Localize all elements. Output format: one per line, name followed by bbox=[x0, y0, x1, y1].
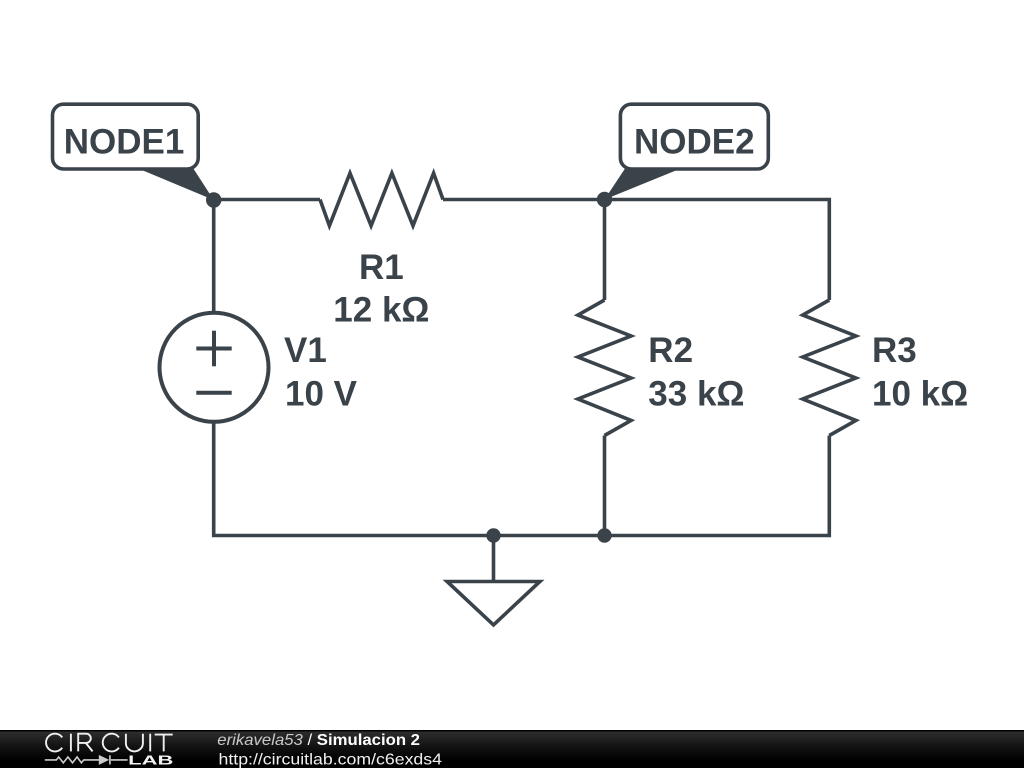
svg-text:NODE1: NODE1 bbox=[64, 123, 185, 162]
svg-text:http://circuitlab.com/c6exds4: http://circuitlab.com/c6exds4 bbox=[219, 752, 443, 768]
svg-text:R2: R2 bbox=[648, 331, 693, 370]
svg-text:R1: R1 bbox=[359, 248, 404, 287]
resistor R1 bbox=[320, 173, 443, 226]
wire node2 to R3 top corner bbox=[605, 200, 830, 301]
svg-text:R3: R3 bbox=[872, 331, 917, 370]
svg-text:33 kΩ: 33 kΩ bbox=[648, 375, 744, 414]
junction dot at ground bbox=[486, 528, 500, 542]
ground bbox=[447, 536, 540, 625]
svg-text:10 kΩ: 10 kΩ bbox=[872, 375, 968, 414]
wire bottom rail bbox=[494, 436, 830, 536]
svg-text:12 kΩ: 12 kΩ bbox=[333, 291, 429, 330]
wire R2 bottom to bottom rail bbox=[603, 436, 607, 536]
svg-text:10 V: 10 V bbox=[285, 375, 358, 414]
svg-text:erikavela53 / Simulacion 2: erikavela53 / Simulacion 2 bbox=[217, 732, 420, 749]
wire V1 bottom to bottom rail bbox=[214, 422, 494, 536]
junction dot R2 bottom bbox=[597, 528, 611, 542]
voltage source V1 bbox=[160, 313, 269, 422]
node label NODE2 bbox=[605, 104, 769, 199]
resistor R3 bbox=[803, 300, 856, 436]
wire node2 to R2 top bbox=[603, 200, 607, 301]
resistor R2 bbox=[578, 300, 631, 436]
svg-text:LAB: LAB bbox=[128, 752, 173, 767]
svg-text:NODE2: NODE2 bbox=[634, 123, 755, 162]
svg-text:V1: V1 bbox=[284, 331, 327, 370]
wire node1 to R1 left lead bbox=[214, 198, 320, 202]
node NODE1 junction dot bbox=[206, 192, 221, 207]
node label NODE1 bbox=[53, 104, 214, 200]
wire R1 right lead to node2 bbox=[443, 198, 605, 202]
wire node1 to V1 top bbox=[212, 200, 216, 314]
footer watermark bar bbox=[0, 730, 1024, 768]
node NODE2 junction dot bbox=[597, 192, 612, 207]
